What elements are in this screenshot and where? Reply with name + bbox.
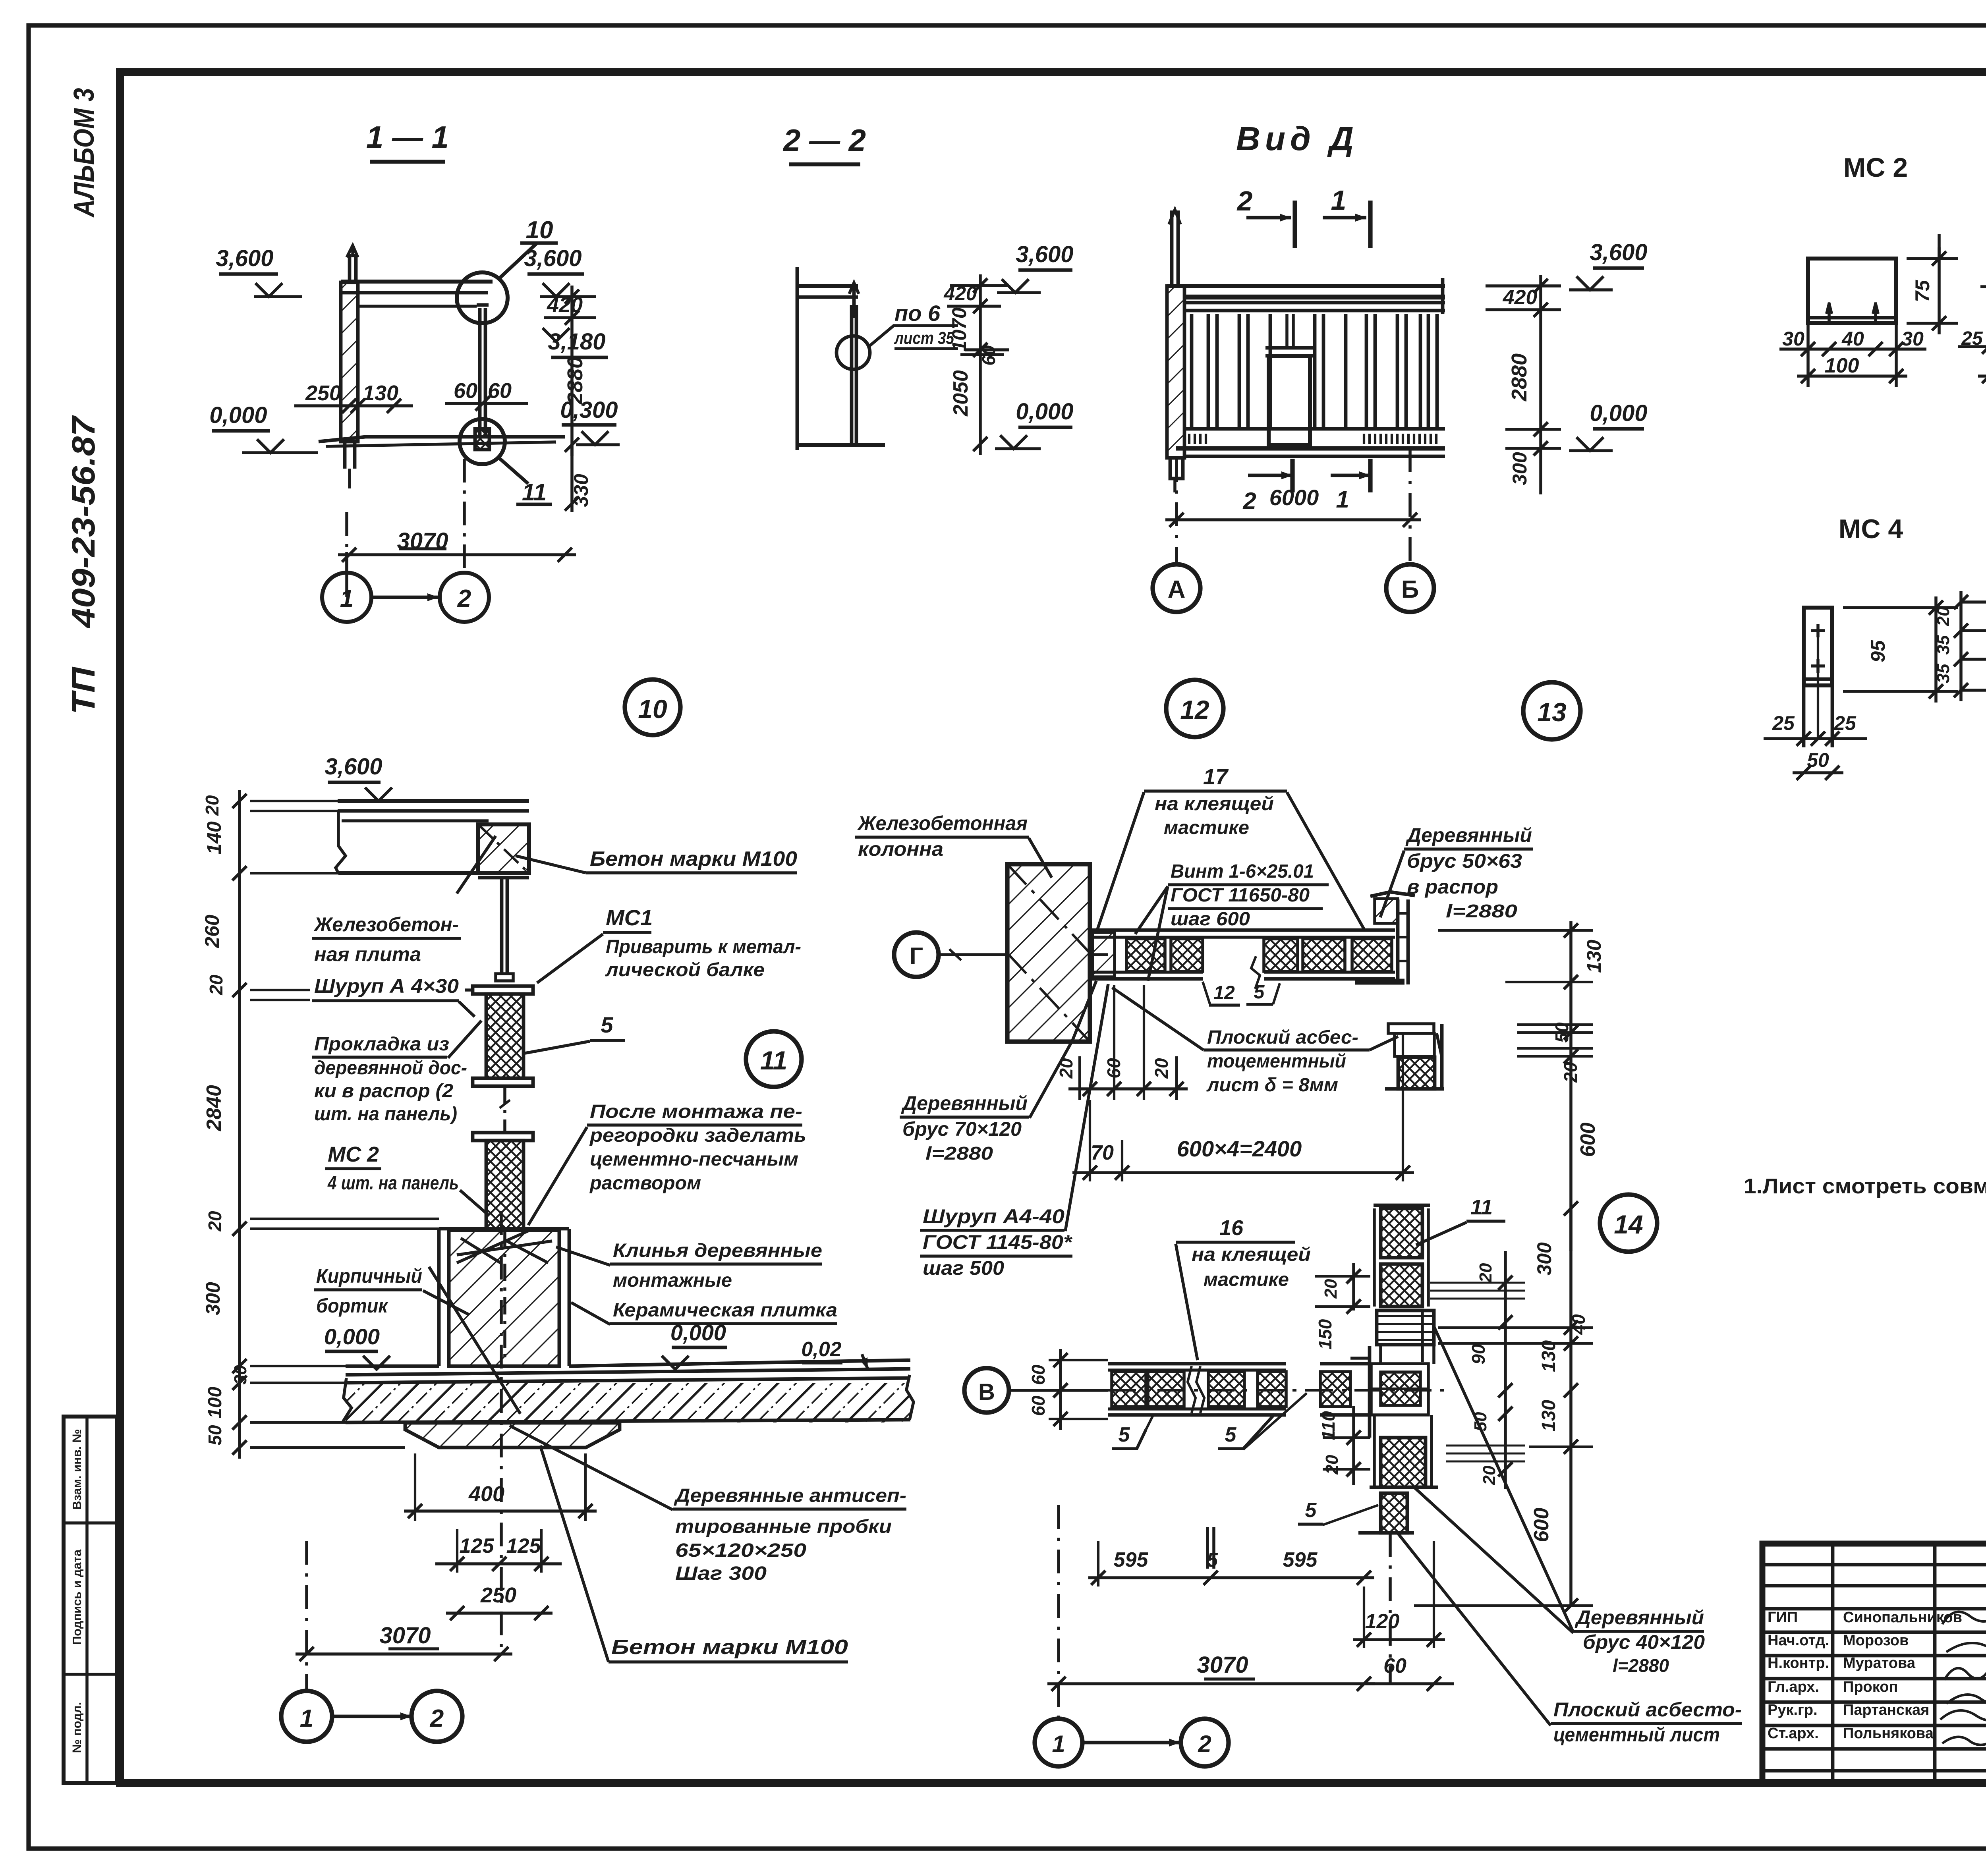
svg-text:ТП 409-23-56.87: ТП 409-23-56.87: [66, 415, 102, 714]
svg-text:Польнякова: Польнякова: [1843, 1725, 1934, 1742]
svg-text:тоцементный: тоцементный: [1207, 1051, 1346, 1072]
node 11 concrete slab: [346, 1383, 910, 1422]
svg-text:1: 1: [300, 1705, 313, 1732]
section 1-1 wall base: [343, 442, 347, 469]
section 1-1 floor line: [319, 437, 565, 442]
svg-text:2: 2: [1236, 185, 1253, 216]
section 1-1 wall column: [341, 282, 358, 442]
svg-text:l=2880: l=2880: [1613, 1655, 1669, 1676]
section 2-2 frame: [796, 267, 799, 450]
svg-text:75: 75: [1911, 280, 1934, 302]
view D right dim chain: [1539, 275, 1542, 494]
svg-text:16: 16: [1219, 1216, 1244, 1240]
svg-text:260: 260: [201, 915, 223, 948]
svg-text:2: 2: [457, 585, 471, 612]
svg-text:Рук.гр.: Рук.гр.: [1768, 1702, 1818, 1718]
node V right dims outer: [1569, 1208, 1573, 1606]
title block signatures: [1942, 1608, 1986, 1629]
svg-text:0,000: 0,000: [1016, 399, 1073, 425]
svg-text:АЛЬБОМ 3: АЛЬБОМ 3: [68, 88, 100, 218]
svg-text:Кирпичный: Кирпичный: [316, 1265, 422, 1287]
svg-text:регородки заделать: регородки заделать: [589, 1125, 806, 1146]
svg-text:на клеящей: на клеящей: [1155, 793, 1274, 814]
node 11 axis lines: [305, 1541, 308, 1684]
svg-text:20: 20: [206, 975, 226, 996]
svg-text:125: 125: [506, 1534, 541, 1558]
svg-text:130: 130: [363, 381, 398, 405]
node 11 panel axis: [503, 1230, 506, 1362]
svg-text:50: 50: [205, 1425, 225, 1446]
svg-text:5: 5: [1254, 982, 1265, 1003]
svg-text:300: 300: [202, 1282, 224, 1315]
svg-text:40: 40: [1841, 328, 1864, 350]
svg-text:деревянной дос-: деревянной дос-: [314, 1058, 467, 1079]
node 10 upper panel: [473, 986, 533, 994]
svg-text:на клеящей: на клеящей: [1192, 1244, 1311, 1265]
svg-text:60: 60: [1383, 1654, 1406, 1677]
svg-text:140: 140: [203, 821, 225, 855]
svg-text:5: 5: [1119, 1423, 1130, 1446]
node G right jamb: [1375, 899, 1398, 923]
svg-text:МС 2: МС 2: [328, 1143, 379, 1166]
svg-text:Плоский асбес-: Плоский асбес-: [1207, 1027, 1358, 1048]
svg-text:брус 40×120: брус 40×120: [1583, 1631, 1705, 1653]
svg-text:мастике: мастике: [1164, 817, 1249, 838]
svg-text:Прокладка из: Прокладка из: [314, 1034, 449, 1055]
node 12 bubble: [1166, 680, 1223, 737]
svg-text:шаг 500: шаг 500: [923, 1257, 1004, 1279]
node G corner bracket: [1388, 1024, 1434, 1033]
view D left column: [1167, 286, 1184, 458]
svg-text:5: 5: [601, 1012, 613, 1037]
section 1-1 top slab: [341, 280, 493, 284]
svg-text:250: 250: [305, 381, 341, 405]
svg-text:11: 11: [1470, 1195, 1493, 1219]
detail MC2 plate: [1808, 259, 1896, 323]
svg-text:2: 2: [1198, 1731, 1211, 1757]
svg-text:l=2880: l=2880: [925, 1143, 993, 1164]
view D bottom: [1184, 427, 1445, 431]
section 2-2 dim chain: [979, 274, 982, 455]
view D axis A: [1175, 458, 1178, 563]
node G axis bubble G: [894, 932, 939, 977]
svg-text:Клинья деревянные: Клинья деревянные: [613, 1240, 822, 1261]
svg-text:Плоский асбесто-: Плоский асбесто-: [1553, 1698, 1742, 1721]
svg-text:95: 95: [1867, 640, 1889, 662]
section 1-1 axis circles: [322, 573, 371, 622]
svg-text:20: 20: [205, 1211, 225, 1232]
svg-text:лист 35: лист 35: [894, 328, 954, 348]
svg-text:1: 1: [1052, 1731, 1065, 1757]
svg-text:60: 60: [1028, 1365, 1049, 1385]
svg-text:лической балке: лической балке: [605, 959, 765, 980]
svg-text:3,600: 3,600: [1016, 241, 1073, 267]
svg-text:После монтажа пе-: После монтажа пе-: [590, 1101, 802, 1122]
svg-text:брус 70×120: брус 70×120: [902, 1118, 1022, 1140]
node 11 dim 125 125: [435, 1562, 562, 1565]
svg-text:ная плита: ная плита: [314, 943, 421, 965]
svg-text:колонна: колонна: [858, 838, 943, 860]
node V wall below: [1381, 1438, 1426, 1487]
node V panel blocks: [1112, 1372, 1146, 1407]
svg-text:150: 150: [1315, 1319, 1335, 1349]
svg-text:300: 300: [1509, 452, 1531, 485]
svg-text:600×4=2400: 600×4=2400: [1177, 1136, 1302, 1161]
node 10 bubble: [625, 679, 680, 735]
view D door: [1269, 356, 1310, 445]
svg-text:0,02: 0,02: [801, 1338, 841, 1361]
svg-text:30: 30: [231, 1365, 250, 1384]
section 1-1 floor anchor circle 11: [460, 419, 505, 464]
svg-text:2: 2: [430, 1705, 444, 1732]
svg-text:3,600: 3,600: [216, 245, 273, 271]
detail MC2 dim 75: [1907, 257, 1958, 260]
svg-text:60: 60: [488, 379, 512, 403]
svg-text:Деревянный: Деревянный: [1405, 824, 1532, 846]
svg-text:Морозов: Морозов: [1843, 1632, 1909, 1649]
node 13 bubble: [1523, 682, 1580, 739]
svg-text:250: 250: [480, 1583, 516, 1607]
node V left dims 60 60: [1059, 1349, 1062, 1430]
svg-text:60: 60: [454, 379, 477, 403]
svg-text:Деревянные антисеп-: Деревянные антисеп-: [674, 1485, 906, 1506]
svg-text:в распор: в распор: [1407, 876, 1498, 898]
svg-text:шаг 600: шаг 600: [1171, 909, 1250, 930]
svg-text:Н.контр.: Н.контр.: [1768, 1655, 1829, 1671]
svg-text:Шуруп А 4×30: Шуруп А 4×30: [314, 975, 459, 997]
detail MC4 front plate: [1804, 608, 1832, 685]
node 11 foundation: [405, 1423, 620, 1448]
svg-text:11: 11: [522, 479, 547, 506]
svg-text:11: 11: [760, 1046, 788, 1075]
svg-text:420: 420: [1503, 286, 1538, 309]
svg-text:ГОСТ 1145-80*: ГОСТ 1145-80*: [923, 1231, 1073, 1253]
svg-text:600: 600: [1530, 1508, 1553, 1542]
svg-text:20: 20: [1056, 1058, 1076, 1079]
svg-text:17: 17: [1203, 764, 1229, 789]
svg-text:Приварить к метал-: Приварить к метал-: [606, 936, 801, 957]
svg-text:Ст.арх.: Ст.арх.: [1768, 1725, 1819, 1742]
section 1-1 partition: [478, 308, 482, 436]
svg-text:13: 13: [1537, 697, 1566, 727]
svg-text:20: 20: [1560, 1062, 1581, 1083]
svg-text:100: 100: [1825, 354, 1859, 377]
view D base texture: [1188, 434, 1190, 444]
svg-text:60: 60: [1028, 1395, 1049, 1416]
svg-text:шт. на панель): шт. на панель): [314, 1104, 457, 1125]
detail MC4 dim 95: [1843, 606, 1958, 609]
svg-text:Прокоп: Прокоп: [1843, 1679, 1898, 1695]
svg-text:3,180: 3,180: [548, 329, 605, 355]
svg-text:14: 14: [1614, 1210, 1643, 1239]
svg-text:20: 20: [1476, 1263, 1495, 1283]
node V right dims inner: [1504, 1251, 1507, 1489]
svg-text:70: 70: [1091, 1141, 1114, 1164]
svg-text:20: 20: [1151, 1058, 1172, 1079]
svg-text:Вид Д: Вид Д: [1236, 120, 1358, 157]
svg-text:0,000: 0,000: [324, 1324, 380, 1349]
view D roof: [1167, 284, 1445, 288]
node 11 axis bubbles: [281, 1691, 332, 1742]
svg-text:25: 25: [1833, 712, 1857, 734]
detail MC5 left dims: [1959, 591, 1963, 701]
svg-text:Железобетонная: Железобетонная: [857, 812, 1028, 834]
svg-text:595: 595: [1114, 1548, 1149, 1571]
svg-text:В: В: [978, 1379, 995, 1405]
svg-text:2880: 2880: [1507, 353, 1531, 401]
svg-text:мастике: мастике: [1204, 1269, 1289, 1290]
svg-text:2840: 2840: [203, 1085, 226, 1131]
svg-text:0,000: 0,000: [1590, 400, 1647, 426]
node G column: [1007, 864, 1090, 1042]
node V wall dims 20 150 110 20: [1352, 1263, 1355, 1310]
node V axis bubble V: [964, 1368, 1009, 1413]
svg-text:10: 10: [526, 216, 553, 244]
svg-text:Шаг 300: Шаг 300: [675, 1563, 767, 1584]
svg-text:20: 20: [202, 795, 222, 816]
svg-text:Взам. инв. №: Взам. инв. №: [70, 1429, 84, 1509]
svg-text:Нач.отд.: Нач.отд.: [1768, 1632, 1829, 1649]
svg-text:раствором: раствором: [589, 1173, 701, 1194]
svg-text:40: 40: [1568, 1314, 1589, 1335]
node G panel sheets: [1092, 928, 1395, 932]
node G panel brus at column: [1093, 932, 1115, 977]
svg-text:ГОСТ 11650-80: ГОСТ 11650-80: [1171, 885, 1310, 906]
node 11 lower panel: [473, 1133, 533, 1141]
svg-text:130: 130: [1583, 940, 1605, 973]
node 11 dim 3070: [296, 1652, 512, 1656]
svg-text:20: 20: [1480, 1465, 1499, 1485]
svg-text:Партанская: Партанская: [1843, 1702, 1929, 1718]
node V axis lines: [1057, 1505, 1060, 1717]
svg-text:1.Лист смотреть совместно с: 1.Лист смотреть совместно с листами 21,2…: [1744, 1174, 1986, 1198]
svg-text:цементно-песчаным: цементно-песчаным: [590, 1149, 798, 1170]
svg-text:12: 12: [1213, 982, 1235, 1004]
svg-text:МС 2: МС 2: [1843, 152, 1908, 183]
node 11 bubble: [746, 1031, 802, 1087]
title block frame: [1762, 1544, 1986, 1783]
svg-text:130: 130: [1538, 1400, 1559, 1432]
svg-text:Бетон марки М100: Бетон марки М100: [590, 847, 797, 870]
node 11 left dim chain: [238, 790, 241, 1459]
node 11 brick upstand: [437, 1229, 441, 1366]
svg-text:Деревянный: Деревянный: [1575, 1606, 1704, 1629]
svg-text:12: 12: [1180, 695, 1209, 724]
svg-text:МС 4: МС 4: [1839, 514, 1903, 544]
svg-text:3070: 3070: [1197, 1652, 1248, 1678]
section 2-2 circle po6: [837, 336, 870, 369]
svg-text:600: 600: [1576, 1123, 1600, 1157]
node V dim 120: [1353, 1638, 1445, 1641]
svg-text:цементный лист: цементный лист: [1553, 1724, 1720, 1746]
node 11 dim 400: [404, 1509, 597, 1513]
svg-text:5: 5: [1305, 1499, 1317, 1522]
svg-text:5: 5: [1225, 1423, 1237, 1446]
svg-text:1 — 1: 1 — 1: [366, 120, 449, 154]
svg-text:l=2880: l=2880: [1446, 901, 1518, 921]
view D wall studs: [1190, 314, 1194, 429]
svg-text:Керамическая плитка: Керамическая плитка: [613, 1300, 837, 1321]
node 10 steel beam web: [500, 878, 504, 974]
svg-text:3,600: 3,600: [524, 245, 582, 271]
svg-text:1: 1: [1331, 185, 1347, 216]
svg-text:бортик: бортик: [316, 1295, 388, 1317]
svg-text:20: 20: [1321, 1279, 1341, 1299]
svg-text:Шуруп А4-40: Шуруп А4-40: [923, 1205, 1064, 1228]
svg-text:лист δ = 8мм: лист δ = 8мм: [1206, 1075, 1338, 1096]
node V axis bubbles: [1035, 1719, 1082, 1766]
svg-text:3070: 3070: [379, 1623, 431, 1648]
view D axis B: [1408, 448, 1412, 563]
svg-text:Винт 1-6×25.01: Винт 1-6×25.01: [1171, 861, 1314, 882]
svg-text:Г: Г: [910, 943, 923, 969]
svg-text:3,600: 3,600: [325, 754, 382, 780]
svg-text:0,300: 0,300: [560, 397, 618, 423]
svg-text:0,000: 0,000: [670, 1320, 726, 1345]
node V panel sheets: [1108, 1362, 1286, 1366]
svg-text:Деревянный: Деревянный: [901, 1092, 1028, 1114]
node 11 lower panel axis gap: [503, 1086, 506, 1132]
svg-text:25: 25: [1772, 712, 1795, 734]
svg-text:300: 300: [1533, 1242, 1555, 1276]
svg-text:20: 20: [1934, 606, 1953, 626]
svg-text:110: 110: [1318, 1411, 1339, 1440]
svg-text:4 шт. на панель: 4 шт. на панель: [327, 1173, 459, 1194]
node 11 floor lines: [346, 1365, 439, 1368]
node 10 beam block: [478, 824, 529, 873]
svg-text:35: 35: [1934, 664, 1953, 683]
svg-text:120: 120: [1365, 1610, 1400, 1633]
node 14 bubble: [1600, 1195, 1657, 1252]
node V dim 595 5 595: [1088, 1576, 1374, 1579]
svg-text:2050: 2050: [949, 370, 972, 417]
svg-text:130: 130: [1538, 1340, 1559, 1372]
svg-text:по 6: по 6: [894, 301, 941, 326]
svg-text:№ подл.: № подл.: [70, 1702, 84, 1753]
section 1-1 beam circle 10: [457, 272, 508, 323]
svg-text:65×120×250: 65×120×250: [675, 1540, 806, 1561]
svg-text:тированные пробки: тированные пробки: [675, 1516, 892, 1537]
svg-text:А: А: [1168, 576, 1186, 603]
svg-text:30: 30: [1782, 328, 1804, 350]
svg-text:1070: 1070: [948, 307, 970, 351]
node V wall junction: [1368, 1346, 1372, 1438]
svg-text:Гл.арх.: Гл.арх.: [1768, 1679, 1819, 1695]
svg-text:90: 90: [1468, 1344, 1489, 1365]
svg-text:10: 10: [638, 694, 667, 724]
svg-text:ки в распор (2: ки в распор (2: [314, 1081, 453, 1102]
svg-text:125: 125: [460, 1534, 495, 1558]
node 10 ceiling slab: [338, 799, 529, 803]
svg-text:1: 1: [1336, 486, 1349, 513]
svg-text:35: 35: [1934, 635, 1953, 654]
svg-text:2: 2: [1242, 488, 1256, 514]
svg-text:Муратова: Муратова: [1843, 1655, 1916, 1671]
node V dim 3070: [1047, 1682, 1375, 1685]
margin stamp column: [64, 1417, 117, 1783]
svg-text:30: 30: [1901, 328, 1924, 350]
svg-text:брус 50×63: брус 50×63: [1407, 850, 1522, 872]
svg-text:Железобетон-: Железобетон-: [313, 913, 459, 936]
svg-text:Бетон марки М100: Бетон марки М100: [611, 1636, 848, 1659]
svg-text:2 — 2: 2 — 2: [782, 123, 866, 158]
svg-text:595: 595: [1283, 1548, 1318, 1571]
svg-text:МС1: МС1: [606, 905, 653, 930]
svg-text:400: 400: [468, 1482, 504, 1506]
svg-text:ГИП: ГИП: [1768, 1609, 1798, 1626]
node V wall above: [1381, 1208, 1422, 1258]
svg-text:Подпись и дата: Подпись и дата: [70, 1549, 84, 1645]
svg-text:Б: Б: [1401, 576, 1419, 603]
node G panel blocks: [1126, 939, 1165, 971]
section 2-2 ground: [799, 443, 885, 447]
svg-text:20: 20: [1322, 1455, 1342, 1475]
svg-text:3,600: 3,600: [1590, 239, 1647, 265]
node 11 dim 250: [446, 1612, 553, 1615]
svg-text:0,000: 0,000: [209, 402, 267, 428]
svg-text:100: 100: [205, 1387, 226, 1419]
node G right dim chain: [1569, 921, 1573, 1251]
svg-text:монтажные: монтажные: [613, 1270, 732, 1291]
title block grid: [1762, 1563, 1986, 1567]
